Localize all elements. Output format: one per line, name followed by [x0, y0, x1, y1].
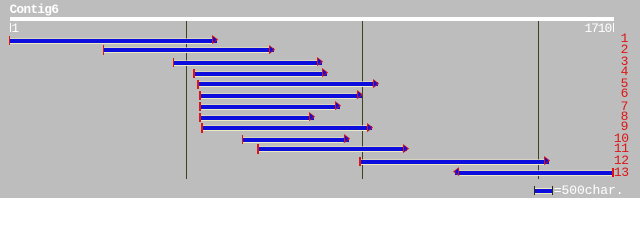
read number 6	[621, 87, 628, 100]
read arrow 12	[360, 160, 549, 164]
read arrow 13	[455, 171, 612, 175]
read arrow 8	[200, 116, 314, 120]
gridline 1500	[538, 21, 540, 179]
read number 11	[614, 142, 629, 155]
title Contig6	[10, 4, 59, 17]
read arrow 3	[174, 61, 322, 65]
read number 2	[621, 43, 628, 56]
label |1	[10, 23, 11, 32]
read arrow 11	[258, 147, 407, 151]
read number 7	[621, 100, 628, 113]
legend bar	[535, 188, 552, 189]
read number 12	[614, 154, 629, 167]
read arrow 6	[200, 94, 362, 98]
read arrow 1	[10, 39, 218, 43]
gridline 500	[186, 21, 188, 179]
read number 8	[621, 110, 628, 123]
read number 1	[621, 32, 628, 45]
label 1710|	[585, 22, 612, 35]
read number 5	[621, 77, 628, 90]
read number 4	[621, 65, 628, 78]
read number 9	[621, 120, 628, 133]
read arrow 9	[202, 126, 372, 130]
read number 3	[621, 55, 628, 68]
read arrow 10	[243, 138, 349, 142]
gridline 1000	[362, 21, 364, 179]
read arrow 5	[198, 82, 378, 86]
read arrow 7	[200, 105, 340, 109]
read number 10	[614, 132, 629, 145]
ruler bar	[10, 17, 614, 21]
read arrow 4	[194, 72, 327, 76]
read arrow 2	[104, 48, 274, 52]
legend text	[554, 184, 624, 197]
read number 13	[614, 166, 629, 179]
